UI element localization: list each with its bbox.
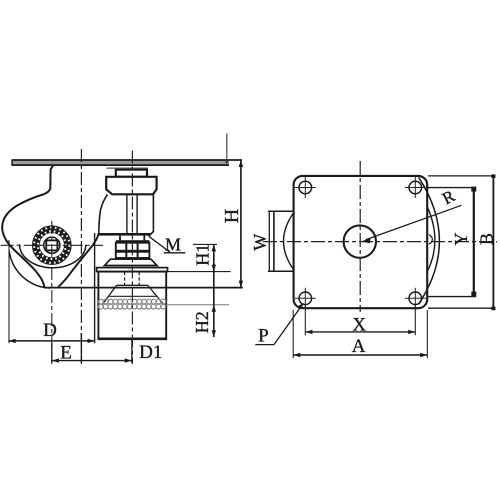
wheel horizontal centerline bbox=[1, 244, 103, 246]
housing fender curve (right profile) bbox=[58, 233, 99, 287]
svg-text:B: B bbox=[476, 233, 496, 245]
wheel hub knurled ring bbox=[34, 228, 69, 263]
swivel axis extension to E dimension bbox=[80, 333, 82, 363]
svg-text:P: P bbox=[258, 326, 269, 347]
bolt hole bottom-left bbox=[295, 288, 316, 309]
flange cone under nut bbox=[105, 259, 158, 265]
bolt hole bottom-right bbox=[405, 288, 426, 309]
left pad protrusion bbox=[268, 211, 294, 271]
center hole bbox=[344, 225, 376, 257]
wheel axis extension to E dimension bbox=[51, 343, 53, 363]
svg-text:X: X bbox=[352, 315, 366, 336]
knob flange bushing bbox=[106, 177, 156, 195]
dimension H line bbox=[239, 160, 243, 288]
wheel outer swivel arc bbox=[419, 177, 440, 304]
pad top plate bbox=[97, 268, 168, 272]
hex nut bbox=[116, 236, 150, 260]
adjusting knob top bbox=[116, 170, 147, 177]
dimension D line bbox=[8, 240, 94, 343]
bolt hole top-left bbox=[295, 177, 316, 198]
extension line pad top bbox=[166, 271, 230, 273]
sleeve right edge bbox=[149, 194, 154, 236]
small line under plate bbox=[107, 167, 149, 169]
svg-text:Y: Y bbox=[451, 233, 471, 246]
top mounting plate bbox=[12, 159, 242, 165]
mounting plate outline bbox=[294, 176, 428, 308]
wheel hub small arc bbox=[429, 235, 432, 245]
swivel axis centerline bbox=[80, 149, 82, 364]
svg-text:E: E bbox=[60, 343, 72, 364]
label P with leader bbox=[255, 303, 303, 347]
svg-text:D1: D1 bbox=[139, 342, 162, 363]
hidden stem inside pad bbox=[125, 272, 140, 285]
extension tick above plate right end bbox=[225, 134, 229, 166]
housing body outline bbox=[2, 166, 53, 288]
foot pad body bbox=[98, 272, 166, 339]
serrated rubber band inside pad bbox=[98, 299, 165, 309]
hub axle square bbox=[46, 240, 57, 250]
svg-text:D: D bbox=[43, 320, 57, 341]
wheel lower-left arc bbox=[9, 251, 50, 288]
svg-text:H: H bbox=[221, 209, 243, 223]
pad axis extension to D1 dimension bbox=[131, 340, 133, 363]
stem axis centerline bbox=[131, 151, 133, 365]
pad bottom thick edge bbox=[98, 337, 168, 340]
housing boss curve under bushing bbox=[99, 195, 108, 234]
svg-text:H1: H1 bbox=[193, 244, 213, 266]
extension line serration (gray) bbox=[166, 304, 229, 306]
wheel right edge / D right extension bbox=[94, 233, 96, 343]
dimension H1 H2 line bbox=[212, 244, 216, 337]
wheel vertical centerline bbox=[51, 221, 53, 364]
wheel tread arc bbox=[427, 207, 435, 272]
threaded stem bbox=[127, 194, 137, 233]
hub inner ring bbox=[44, 237, 60, 253]
wheel-well arch under hub bbox=[20, 244, 86, 267]
bolt hole top-right bbox=[405, 177, 426, 198]
dimension E / D1 line bbox=[52, 358, 132, 362]
svg-text:A: A bbox=[352, 336, 366, 357]
W bracket line bbox=[268, 211, 270, 271]
horizontal centerline right view bbox=[263, 241, 497, 243]
Y bracket bbox=[427, 187, 476, 297]
label R with leader bbox=[361, 186, 462, 243]
extension line at axle height bbox=[193, 243, 217, 245]
dimension A bbox=[293, 310, 427, 358]
washer bar under knob sleeve bbox=[99, 233, 151, 236]
svg-text:M: M bbox=[165, 235, 181, 255]
label M with leader bbox=[149, 235, 186, 255]
svg-text:H2: H2 bbox=[192, 311, 212, 333]
dimension X bbox=[305, 305, 415, 335]
hidden cone inside pad bbox=[102, 285, 163, 304]
floor line bbox=[44, 287, 243, 289]
vertical centerline right view bbox=[359, 161, 361, 312]
B bracket bbox=[428, 174, 496, 310]
